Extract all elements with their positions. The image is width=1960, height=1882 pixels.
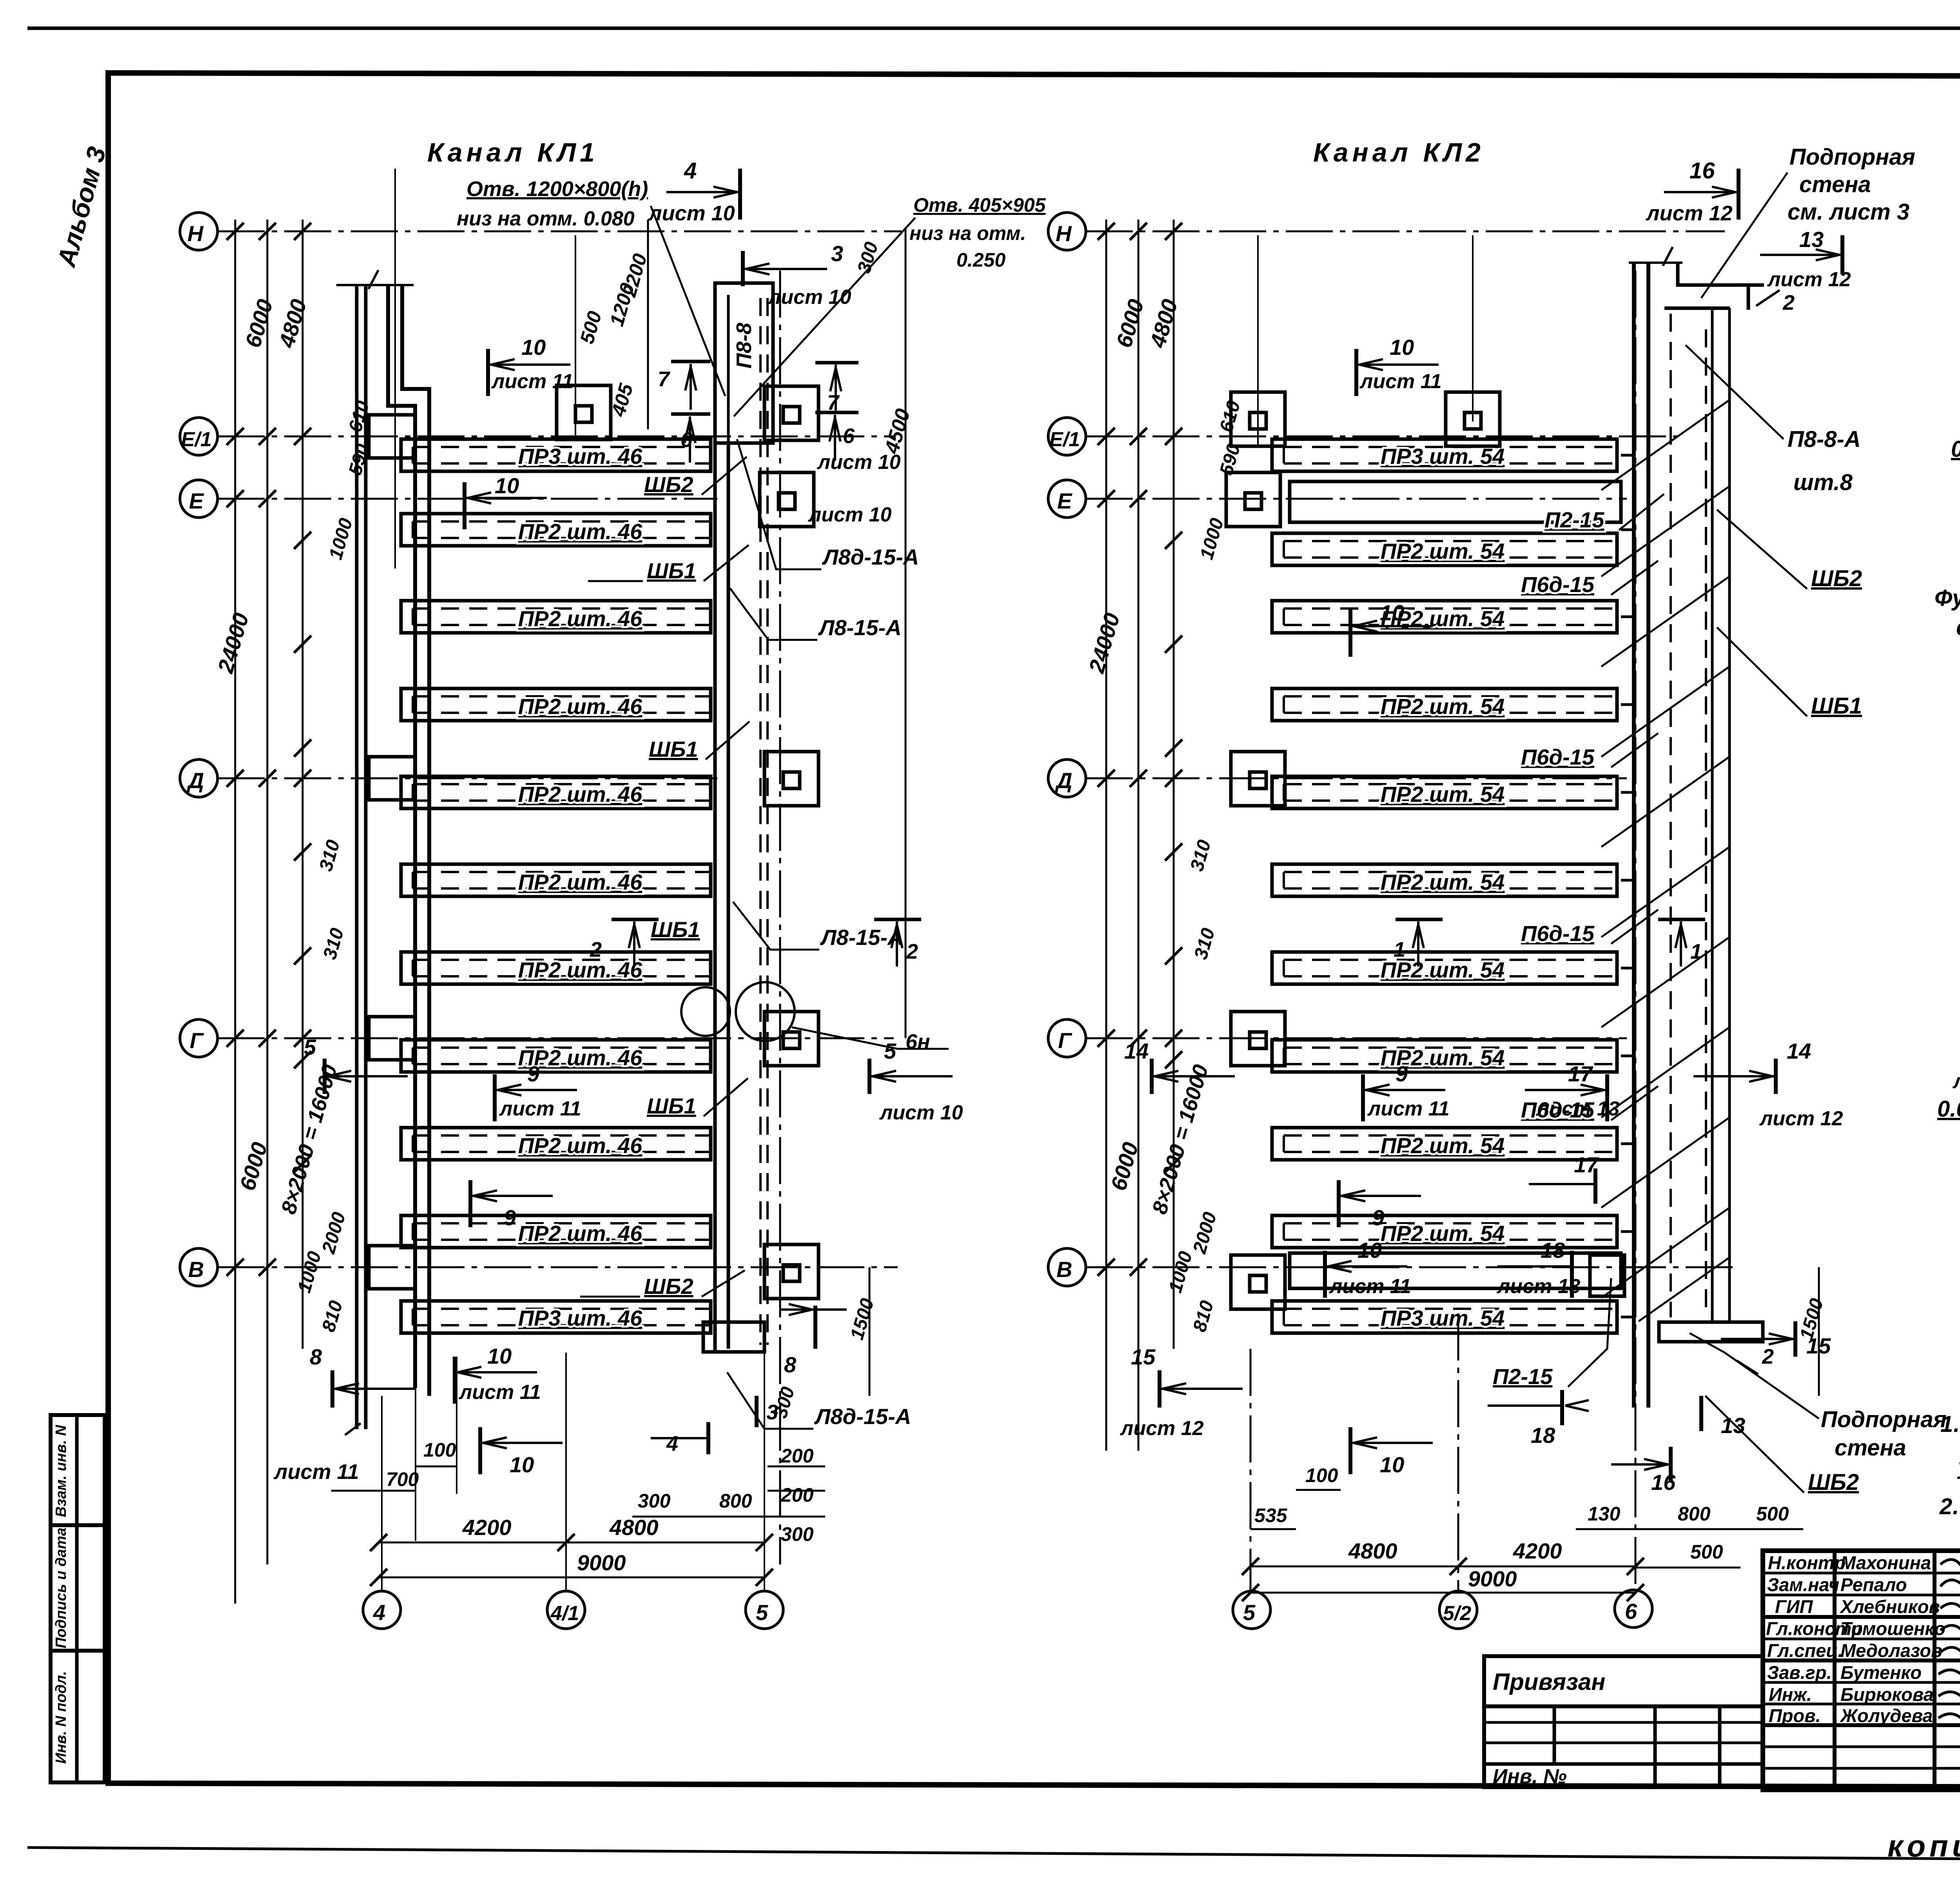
pad column centerlines KL2 top <box>1257 235 1259 447</box>
svg-text:15: 15 <box>1806 1333 1831 1358</box>
svg-text:800: 800 <box>719 1490 752 1512</box>
svg-text:3: 3 <box>831 241 843 266</box>
flag 3 list 10 <box>743 241 851 309</box>
svg-text:Зам.нач: Зам.нач <box>1767 1574 1839 1595</box>
bar PR2-2 <box>1272 601 1617 633</box>
leaders from P6d-15 <box>1611 561 1658 1120</box>
flag 6 left <box>671 414 710 463</box>
axis line E <box>1086 498 1627 500</box>
svg-text:Гл.спец.: Гл.спец. <box>1767 1640 1843 1661</box>
svg-text:0.000: 0.000 <box>1937 1096 1960 1122</box>
svg-text:низ на отм.: низ на отм. <box>909 222 1026 244</box>
flag 1 left <box>1394 919 1443 966</box>
bar PR2-7 <box>401 1040 711 1072</box>
svg-text:лист 12: лист 12 <box>1759 1107 1843 1130</box>
channel second wall line <box>727 443 730 1349</box>
svg-text:4800: 4800 <box>609 1515 659 1540</box>
svg-text:300: 300 <box>638 1490 671 1512</box>
svg-text:16: 16 <box>1651 1470 1676 1495</box>
svg-text:9000: 9000 <box>577 1550 626 1575</box>
retaining wall solid verticals <box>1712 308 1730 1321</box>
svg-text:14: 14 <box>1124 1039 1149 1063</box>
outer top border line <box>27 27 1960 30</box>
axis circle V <box>1048 1248 1086 1286</box>
svg-text:Л8-15-А: Л8-15-А <box>818 615 902 640</box>
svg-text:17: 17 <box>1574 1152 1599 1177</box>
dim ticks on axis crossings <box>227 223 311 1276</box>
centerline of opening <box>394 169 396 569</box>
pad right V <box>764 1244 818 1299</box>
axis line E <box>218 498 717 500</box>
bar PR2-4 <box>1272 776 1617 808</box>
svg-text:ПР2 шт. 54: ПР2 шт. 54 <box>1381 870 1505 894</box>
svg-text:лист 12: лист 12 <box>1645 202 1733 225</box>
svg-text:лист 11: лист 11 <box>458 1381 541 1404</box>
vertical dim line 3 <box>1173 220 1175 1349</box>
svg-text:13: 13 <box>1721 1413 1745 1438</box>
svg-text:лист 13: лист 13 <box>1535 1097 1620 1120</box>
svg-text:2: 2 <box>1762 1345 1774 1368</box>
axis circle G <box>1048 1019 1086 1057</box>
pad mid V small <box>1590 1255 1624 1296</box>
pad mid E1 <box>1446 392 1500 446</box>
dim line 4200-4800 <box>379 1542 764 1544</box>
small dim lines right <box>632 1466 825 1517</box>
flag 10 bottom <box>1325 1238 1411 1298</box>
verticals from structure <box>382 1353 764 1592</box>
svg-text:Взам. инв. N: Взам. инв. N <box>53 1424 69 1517</box>
flag 2 bottom <box>1737 1345 1774 1374</box>
vertical dim line 24000 <box>234 220 236 1604</box>
pad top middle <box>557 385 611 440</box>
svg-text:ШБ2: ШБ2 <box>1808 1470 1859 1495</box>
svg-text:Е/1: Е/1 <box>1049 428 1080 451</box>
axis circle 4/1 <box>547 1591 585 1629</box>
label P2-15 top <box>1544 494 1664 532</box>
module ticks KL2 <box>1165 532 1182 1172</box>
svg-text:ШБ1: ШБ1 <box>1811 693 1862 719</box>
svg-text:Е: Е <box>189 489 204 513</box>
svg-text:Подпись и дата: Подпись и дата <box>53 1528 69 1648</box>
svg-text:Л8д-15-А: Л8д-15-А <box>822 545 919 569</box>
flag 17 list 13 <box>1525 1061 1620 1121</box>
pad right E <box>760 472 814 527</box>
svg-text:Д: Д <box>187 768 204 793</box>
svg-text:Подпорная: Подпорная <box>1821 1407 1947 1432</box>
flags 10/9 KL2 <box>1325 335 1705 1477</box>
svg-text:В: В <box>188 1257 204 1282</box>
svg-text:9000: 9000 <box>1468 1566 1517 1591</box>
svg-text:ПР2 шт. 46: ПР2 шт. 46 <box>518 606 642 631</box>
wall top cap with break <box>1629 247 1682 266</box>
flag 13 bottom <box>1701 1396 1745 1438</box>
svg-text:Л8д-15-А: Л8д-15-А <box>814 1404 911 1429</box>
vertical dim line 2 <box>1138 220 1140 1451</box>
svg-text:18: 18 <box>1541 1238 1565 1263</box>
bar PR2-2 <box>401 601 711 633</box>
flag 10 mid <box>465 473 547 529</box>
svg-text:П6д-15: П6д-15 <box>1521 921 1595 946</box>
svg-text:300: 300 <box>781 1523 814 1545</box>
svg-text:10: 10 <box>495 473 519 498</box>
inner wall line C with jog <box>388 285 415 1388</box>
flag 10 bottom2 <box>480 1427 563 1477</box>
retaining wall top step <box>1664 263 1764 310</box>
svg-text:Отв. 1200×800(h): Отв. 1200×800(h) <box>466 177 648 201</box>
axis circle G <box>180 1019 218 1057</box>
svg-text:0.000: 0.000 <box>1951 436 1960 462</box>
axis circle 5 <box>1233 1591 1270 1629</box>
axis circle E1 <box>180 418 218 455</box>
pad left V <box>1231 1255 1285 1309</box>
signatures squiggles <box>1938 1560 1960 1723</box>
svg-text:ПР2 шт. 54: ПР2 шт. 54 <box>1381 782 1505 807</box>
svg-text:4200: 4200 <box>462 1515 512 1540</box>
flag 16 list12 top <box>1645 158 1739 225</box>
label ShB2 <box>1717 510 1862 591</box>
left columns verticals <box>1833 1551 1837 1790</box>
svg-text:5: 5 <box>1243 1600 1256 1625</box>
axis line E1 <box>218 436 894 438</box>
svg-text:ШБ1: ШБ1 <box>647 558 696 583</box>
svg-text:лист 12: лист 12 <box>1120 1417 1204 1440</box>
axis line D <box>218 778 717 779</box>
bar PR2-9 <box>401 1215 711 1248</box>
flag 5 right list 10 <box>869 1039 963 1124</box>
svg-text:ПР2 шт. 46: ПР2 шт. 46 <box>518 1133 642 1158</box>
module ticks KL1 <box>294 532 311 1172</box>
left wall double lines <box>357 285 366 1429</box>
flag 5 left <box>304 1035 408 1094</box>
bar PR2-9 <box>1272 1215 1617 1248</box>
svg-text:ПР2 шт. 54: ПР2 шт. 54 <box>1381 539 1505 563</box>
label ShB1-4 <box>647 1078 748 1118</box>
svg-text:Тимошенко: Тимошенко <box>1840 1618 1945 1639</box>
svg-text:16: 16 <box>1690 158 1715 183</box>
svg-text:ПР2 шт. 46: ПР2 шт. 46 <box>518 870 642 894</box>
flag 2 list 11 <box>1952 1039 1960 1093</box>
svg-text:6: 6 <box>843 424 855 448</box>
precast bars KL2 <box>1272 439 1664 1389</box>
channel left wall line <box>713 443 717 1352</box>
bar PR2-5 <box>401 864 711 896</box>
bar PR2-8 <box>401 1128 711 1160</box>
svg-text:200: 200 <box>780 1445 814 1467</box>
svg-text:лист 10: лист 10 <box>808 503 892 526</box>
svg-text:10: 10 <box>1380 1452 1404 1477</box>
svg-text:В: В <box>1056 1257 1072 1282</box>
svg-text:ШБ1: ШБ1 <box>649 737 698 761</box>
svg-text:Бирюкова: Бирюкова <box>1840 1684 1934 1705</box>
flag 7 right <box>815 363 901 474</box>
vertical dim line 6000-4800 <box>267 220 269 1564</box>
row lines <box>1763 1572 1960 1575</box>
left vertical strip table <box>51 1415 105 1782</box>
dim line 4800-4200 <box>1250 1566 1635 1568</box>
svg-text:лист 11: лист 11 <box>499 1097 581 1120</box>
flag 1 right <box>1658 919 1705 966</box>
level 0.000 <box>1951 436 1960 483</box>
leader from note <box>1701 173 1788 298</box>
label ShB1-2 <box>649 721 750 761</box>
label L8-15-A-1 <box>730 588 902 640</box>
svg-text:0.250: 0.250 <box>956 249 1005 271</box>
svg-text:стена: стена <box>1799 172 1871 197</box>
svg-text:лист 10: лист 10 <box>648 202 735 225</box>
svg-text:Жолудева: Жолудева <box>1840 1705 1933 1726</box>
svg-text:лист 11: лист 11 <box>491 370 573 393</box>
svg-text:4: 4 <box>373 1600 385 1625</box>
svg-text:Инв. N подл.: Инв. N подл. <box>53 1671 69 1764</box>
svg-text:1: 1 <box>1394 938 1405 961</box>
svg-text:ПР3 шт. 54: ПР3 шт. 54 <box>1381 1306 1505 1330</box>
svg-text:Медолазов: Медолазов <box>1840 1640 1942 1661</box>
svg-text:100: 100 <box>1305 1464 1338 1486</box>
svg-text:низ на отм. 0.080: низ на отм. 0.080 <box>457 207 635 230</box>
detail circle on channel <box>681 987 730 1036</box>
attachment table left of title block <box>1484 1656 1763 1788</box>
label L8d-15-A top <box>737 439 919 569</box>
svg-text:4/1: 4/1 <box>550 1602 579 1625</box>
svg-text:Д: Д <box>1055 768 1072 793</box>
svg-text:700: 700 <box>386 1468 419 1490</box>
flag 8 left bottom <box>310 1344 416 1408</box>
leader to 6n <box>792 1027 949 1049</box>
svg-text:Канал КЛ2: Канал КЛ2 <box>1313 138 1485 167</box>
KL1 right side labels <box>304 220 963 1477</box>
dim ticks <box>1098 223 1182 1276</box>
svg-text:2: 2 <box>1782 291 1795 314</box>
svg-text:Г: Г <box>190 1028 204 1053</box>
label P8-8-A sht8 <box>1686 345 1861 495</box>
dim line 4500 <box>905 227 907 1038</box>
svg-text:ШБ2: ШБ2 <box>1811 566 1862 591</box>
roles and names <box>1766 1552 1960 1726</box>
svg-text:18: 18 <box>1531 1423 1555 1448</box>
svg-text:ПР3 шт. 46: ПР3 шт. 46 <box>518 444 642 469</box>
dim line small top <box>647 220 649 429</box>
svg-text:Инв. №: Инв. № <box>1493 1765 1567 1788</box>
svg-text:2. Спецификацию на каналы с: 2. Спецификацию на каналы см. на листе 1… <box>1939 1494 1960 1519</box>
svg-text:Н: Н <box>187 221 204 246</box>
bar PR3-1 <box>401 439 711 471</box>
svg-text:10: 10 <box>1357 1238 1382 1263</box>
flag 16 bottom <box>1611 1447 1676 1495</box>
bar PR2-3 <box>401 688 711 721</box>
flag 15 right <box>1721 1321 1831 1358</box>
svg-text:П6д-15: П6д-15 <box>1521 745 1595 769</box>
pad left G <box>1231 1012 1285 1066</box>
svg-text:800: 800 <box>1678 1503 1711 1525</box>
svg-text:5: 5 <box>884 1039 897 1063</box>
bar-to-wall connection marks <box>1621 455 1634 1317</box>
label ShB2 bottom <box>580 1270 745 1299</box>
dim 100 <box>1296 1489 1341 1491</box>
svg-text:Н: Н <box>1056 221 1072 246</box>
svg-text:3: 3 <box>766 1401 778 1424</box>
axis circle D <box>1048 759 1086 797</box>
svg-text:П6д-15: П6д-15 <box>1521 572 1595 597</box>
flag 8 right bottom <box>780 1304 847 1377</box>
KL1 bottom dimensions <box>331 1353 825 1629</box>
label L8d-15-A bottom <box>727 1372 911 1429</box>
svg-text:Г: Г <box>1058 1028 1073 1053</box>
svg-text:лист 13: лист 13 <box>1496 1275 1581 1298</box>
bar PR2-6 <box>1272 952 1617 984</box>
dim 100 <box>416 1466 457 1468</box>
svg-text:200: 200 <box>780 1484 814 1506</box>
label ShB1-3 with flag 2 <box>590 917 700 966</box>
leader line from opening note <box>651 206 725 396</box>
wall dashed lines <box>1671 314 1706 1317</box>
svg-text:2: 2 <box>590 938 602 961</box>
svg-text:лист 11: лист 11 <box>1328 1275 1411 1298</box>
svg-text:копировал варич: копировал варич <box>1887 1829 1960 1863</box>
axis line V <box>218 1266 898 1268</box>
flag 14 list12 right <box>1693 1039 1843 1130</box>
flag 15 list12 bottom left <box>1120 1344 1243 1440</box>
svg-text:Привязан: Привязан <box>1493 1669 1605 1695</box>
svg-text:Л8-15-А: Л8-15-А <box>820 925 904 950</box>
svg-text:ПР2 шт. 54: ПР2 шт. 54 <box>1381 1133 1505 1158</box>
pad left E <box>1226 472 1280 527</box>
flag 9 lower <box>470 1180 553 1230</box>
hatch diagonals <box>1601 400 1730 1321</box>
flag 14 left <box>1124 1039 1235 1094</box>
dim 1500 right <box>869 1267 871 1396</box>
svg-text:ПР2 шт. 46: ПР2 шт. 46 <box>518 782 642 807</box>
bar PR2-7 <box>1272 1040 1617 1072</box>
svg-text:лист 11: лист 11 <box>273 1460 359 1484</box>
svg-text:535: 535 <box>1254 1504 1288 1526</box>
svg-text:6н: 6н <box>906 1030 930 1054</box>
axis circle E1 <box>1048 418 1086 455</box>
axis line G <box>218 1037 894 1039</box>
svg-text:4: 4 <box>666 1432 678 1455</box>
flag 18 list13 <box>1496 1238 1581 1298</box>
axis circle D <box>180 759 218 797</box>
svg-text:5/2: 5/2 <box>1443 1602 1471 1625</box>
flag 9 list 11 <box>495 1061 581 1121</box>
flag 9 lower <box>1339 1180 1421 1230</box>
left pads KL2 <box>1226 392 1624 1309</box>
flag 4 list 10 top <box>648 158 740 225</box>
dim 1500 right <box>1818 1267 1820 1396</box>
svg-text:2: 2 <box>906 940 918 963</box>
pad right E1 <box>764 386 818 440</box>
axis line N <box>218 231 902 233</box>
wall bottom cap <box>1659 1322 1763 1342</box>
svg-text:9: 9 <box>504 1205 516 1230</box>
bar PR2-3 <box>1272 688 1617 721</box>
flag 6 right <box>808 412 892 526</box>
svg-text:4800: 4800 <box>1348 1539 1397 1563</box>
svg-text:4200: 4200 <box>1513 1539 1562 1563</box>
detail circle on pad <box>736 982 795 1041</box>
svg-text:см. лист 3: см. лист 3 <box>1788 199 1909 225</box>
right channel wall KL1 <box>557 271 949 1564</box>
dim line 9000 <box>1250 1592 1635 1594</box>
flag 2 top right <box>1756 290 1795 314</box>
svg-text:15: 15 <box>1131 1344 1156 1369</box>
axis line D <box>1086 778 1627 779</box>
svg-text:14: 14 <box>1787 1039 1811 1063</box>
bar PR2-1 <box>1272 533 1617 565</box>
level 0.000 left <box>1937 1096 1960 1145</box>
svg-text:см. лист 3: см. лист 3 <box>1956 615 1960 640</box>
bar PR2-8 <box>1272 1128 1617 1160</box>
channel dashed wall lines <box>760 298 768 1345</box>
inner wall line D thick <box>402 285 429 1396</box>
bar labels <box>518 444 642 1330</box>
flag 10 list 11 top <box>488 335 573 396</box>
axis circle 5 <box>746 1591 783 1629</box>
svg-text:лист 11: лист 11 <box>1367 1097 1450 1120</box>
svg-text:Подпорная: Подпорная <box>1789 144 1915 170</box>
svg-text:Зав.гр.: Зав.гр. <box>1767 1662 1832 1683</box>
svg-text:4: 4 <box>684 158 697 183</box>
svg-text:10: 10 <box>1390 335 1414 360</box>
svg-text:500: 500 <box>1690 1541 1723 1563</box>
bar PR2-5 <box>1272 864 1617 896</box>
flag 10 bottom <box>455 1344 541 1404</box>
bar PR2-1 <box>401 514 711 546</box>
svg-text:10: 10 <box>521 335 546 360</box>
dim 700 <box>331 1490 416 1492</box>
pad right D <box>764 752 818 806</box>
bar PR2-4 <box>401 776 711 808</box>
bar PR2-6 <box>401 952 711 984</box>
axis circle E <box>1048 480 1086 518</box>
label P6d-15 labels <box>1521 572 1595 1122</box>
pad right G <box>764 1012 818 1066</box>
axis circle N <box>180 213 218 250</box>
svg-text:17: 17 <box>1568 1061 1593 1086</box>
svg-text:Фундамент: Фундамент <box>1935 585 1960 611</box>
svg-text:10: 10 <box>510 1452 534 1477</box>
axis circle 5/2 <box>1439 1591 1477 1629</box>
leader bottom note <box>1690 1333 1819 1419</box>
svg-text:9: 9 <box>527 1061 539 1086</box>
flag 9 list 11 <box>1363 1061 1450 1121</box>
channel bottom cap <box>703 1322 764 1352</box>
wall double lines <box>1634 263 1648 1408</box>
axis circle N <box>1048 213 1086 250</box>
svg-text:8: 8 <box>784 1352 797 1377</box>
bar PR3-2 <box>401 1301 711 1333</box>
pad left D <box>1231 752 1285 806</box>
svg-text:П2-15: П2-15 <box>1544 507 1604 532</box>
dim line 9000 <box>379 1577 764 1579</box>
svg-text:лист 11: лист 11 <box>1952 1070 1960 1093</box>
pad column centerline KL1 top <box>575 235 576 435</box>
svg-text:13: 13 <box>1799 227 1824 252</box>
svg-text:лист 10: лист 10 <box>879 1101 963 1124</box>
svg-text:130: 130 <box>1588 1503 1621 1525</box>
flag 10 list 11 top <box>1356 335 1442 396</box>
channel axis centerline <box>779 271 781 1564</box>
svg-text:ПР2 шт. 46: ПР2 шт. 46 <box>518 519 642 544</box>
svg-text:Репало: Репало <box>1840 1574 1907 1595</box>
svg-text:8: 8 <box>310 1344 322 1369</box>
wall bottom ends <box>345 1423 361 1435</box>
bar PR3-1 <box>1272 439 1617 471</box>
label ShB1 <box>1717 627 1862 719</box>
svg-text:ПР3 шт. 46: ПР3 шт. 46 <box>518 1306 642 1330</box>
flag 4 bottom <box>651 1422 708 1455</box>
flag 10 bottom2 <box>1350 1427 1433 1477</box>
svg-text:Хлебников: Хлебников <box>1839 1596 1940 1617</box>
